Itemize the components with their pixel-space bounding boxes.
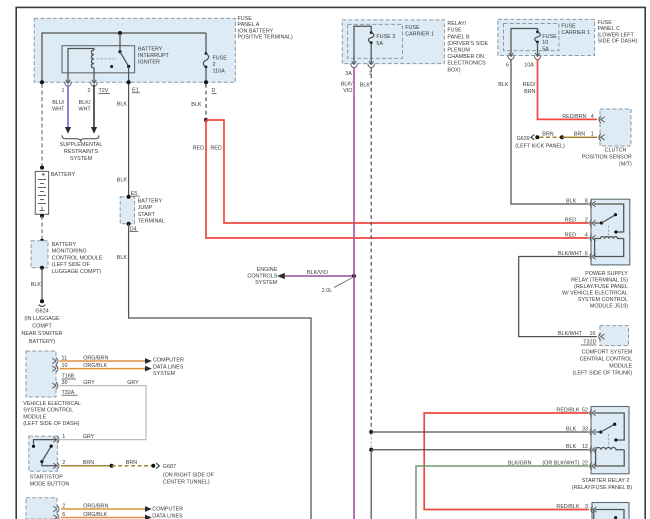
node: bus junction dot above igniter switch: [118, 31, 122, 35]
svg-text:BRN: BRN: [574, 132, 585, 138]
wire BLU/WHT to SRS: [67, 85, 69, 128]
svg-text:FUSE: FUSE: [542, 34, 557, 40]
svg-text:(LEFT SIDE OF DASH): (LEFT SIDE OF DASH): [23, 421, 79, 427]
wire ORG/BLK lower: [61, 517, 147, 519]
battery symbol: [35, 171, 48, 214]
svg-text:G687: G687: [163, 464, 176, 470]
svg-text:G639: G639: [517, 136, 530, 142]
svg-text:BLK/VIO: BLK/VIO: [307, 270, 328, 276]
wire: igniter pin 1 lead to coil: [68, 49, 94, 83]
svg-text:COMFORT SYSTEM: COMFORT SYSTEM: [582, 350, 633, 356]
svg-text:COMPUTER: COMPUTER: [153, 358, 184, 364]
wire BLK to starter relay pin 33: [371, 431, 589, 433]
svg-text:BLK: BLK: [566, 426, 577, 432]
svg-text:3A: 3A: [345, 71, 352, 77]
svg-text:1: 1: [591, 132, 594, 138]
svg-text:(OR BLK/WHT): (OR BLK/WHT): [542, 460, 579, 466]
fuse panel A box: [34, 18, 235, 82]
svg-text:RED/BLK: RED/BLK: [556, 407, 579, 413]
svg-text:(IN LUGGAGE: (IN LUGGAGE: [24, 316, 60, 322]
svg-text:BLK/: BLK/: [341, 82, 353, 88]
svg-text:16: 16: [590, 331, 596, 337]
svg-text:SIDE OF DASH): SIDE OF DASH): [598, 39, 638, 45]
svg-text:SYSTEM CONTROL: SYSTEM CONTROL: [23, 408, 73, 414]
svg-text:CONTROLS: CONTROLS: [247, 274, 277, 280]
svg-text:GRY: GRY: [127, 380, 139, 386]
relay/fuse panel B box: [342, 20, 444, 64]
svg-text:START/STOP: START/STOP: [30, 475, 64, 481]
svg-text:ELECTRONICS: ELECTRONICS: [447, 61, 486, 67]
svg-text:BLU/: BLU/: [52, 100, 64, 106]
wire dashed battery to monitoring module: [41, 216, 43, 240]
wire RED/BRN from pin 10A to clutch position sensor pin 4: [538, 60, 598, 120]
svg-text:110A: 110A: [213, 68, 226, 74]
svg-text:1: 1: [62, 88, 65, 94]
svg-text:CONTROL MODULE: CONTROL MODULE: [52, 255, 103, 261]
lower module box (cut off): [26, 498, 57, 519]
svg-text:BLK: BLK: [117, 177, 128, 183]
relay internal: coil between pin 4 and pin 6: [594, 237, 624, 239]
start/stop mode button box: [29, 436, 58, 471]
svg-text:GRY: GRY: [83, 380, 95, 386]
fuse F2 110A: [205, 33, 207, 53]
connector pin 2: [53, 462, 59, 469]
svg-text:FUSE: FUSE: [238, 16, 253, 22]
svg-text:BLK: BLK: [117, 101, 128, 107]
connector pin 11: [52, 357, 58, 364]
connector pin 10: [52, 365, 58, 372]
node junction dot red wires: [204, 118, 208, 122]
svg-text:BLK/GRN: BLK/GRN: [508, 460, 532, 466]
svg-text:SYSTEM: SYSTEM: [70, 156, 93, 162]
node dot BLK to starter relay pin 33: [369, 430, 373, 434]
fuse carrier 1 box (panel C): [504, 24, 559, 51]
svg-text:BATTERY): BATTERY): [29, 339, 55, 345]
svg-text:STARTER RELAY 2: STARTER RELAY 2: [582, 478, 630, 484]
relay internal: pin 8 to fixed contact: [594, 204, 624, 232]
svg-text:ENGINE: ENGINE: [257, 267, 278, 273]
svg-text:BLK: BLK: [191, 102, 202, 108]
svg-text:BLK: BLK: [566, 198, 577, 204]
svg-text:(LEFT SIDE OF TRUNK): (LEFT SIDE OF TRUNK): [573, 370, 633, 376]
svg-text:CARRIER 1: CARRIER 1: [561, 30, 590, 36]
svg-text:PLENUM: PLENUM: [447, 48, 470, 54]
mechanical link (dashed) coil to switch: [97, 58, 118, 60]
node: bus junction dot at left bottom edge of panel A: [40, 80, 44, 84]
svg-text:BATTERY: BATTERY: [138, 198, 163, 204]
node dot at module bottom: [40, 266, 44, 270]
wire BLK from E1 down to jump start terminal: [128, 84, 130, 197]
svg-text:ORG/BRN: ORG/BRN: [83, 355, 108, 361]
svg-text:POSITION SENSOR: POSITION SENSOR: [582, 155, 632, 161]
svg-text:WHT: WHT: [78, 107, 91, 113]
connector pin 1: [53, 436, 59, 443]
svg-text:BLK/: BLK/: [79, 100, 91, 106]
connector pin 12: [590, 446, 596, 453]
svg-text:10A: 10A: [524, 62, 534, 68]
wire BLK to ground G624: [41, 268, 43, 300]
connector pin 3: [368, 61, 375, 68]
starter relay internal: pin 52 to fixed contact: [594, 413, 624, 440]
svg-text:SYSTEM CONTROL: SYSTEM CONTROL: [578, 297, 628, 303]
svg-text:MODULE J519): MODULE J519): [590, 303, 628, 309]
svg-text:PANEL C: PANEL C: [598, 26, 621, 32]
svg-text:ORG/BLK: ORG/BLK: [83, 512, 107, 518]
fuse F3 5A: [370, 31, 373, 34]
svg-text:CENTRAL CONTROL: CENTRAL CONTROL: [579, 357, 632, 363]
svg-text:INTERRUPT: INTERRUPT: [138, 53, 170, 59]
svg-text:2: 2: [88, 88, 91, 94]
svg-text:FUSE: FUSE: [405, 25, 420, 31]
svg-text:POWER SUPPLY: POWER SUPPLY: [585, 271, 628, 277]
wire ORG/BRN lower: [61, 508, 147, 510]
svg-text:COMPUTER: COMPUTER: [152, 507, 183, 513]
svg-text:FUSE: FUSE: [447, 28, 462, 34]
svg-text:2.0L: 2.0L: [322, 288, 333, 294]
node dot at module top: [40, 239, 44, 243]
starter relay internal: switch blade from pin 33: [594, 431, 600, 433]
svg-text:2: 2: [585, 217, 588, 223]
svg-text:LUGGAGE COMPT): LUGGAGE COMPT): [52, 269, 102, 275]
wire ORG/BRN to computer data lines: [60, 360, 148, 362]
connector pin 6: [590, 253, 596, 260]
svg-text:BLK: BLK: [566, 444, 577, 450]
svg-text:(ON BATTERY: (ON BATTERY: [238, 28, 274, 34]
starter relay internal: actuator dashed: [608, 434, 610, 449]
svg-text:(DRIVER'S SIDE: (DRIVER'S SIDE: [447, 41, 488, 47]
svg-text:JUMP: JUMP: [138, 205, 153, 211]
svg-text:12: 12: [582, 444, 588, 450]
svg-text:RED/BLK: RED/BLK: [556, 504, 579, 510]
svg-text:(ON RIGHT SIDE OF: (ON RIGHT SIDE OF: [163, 472, 215, 478]
svg-text:DATA LINES: DATA LINES: [153, 364, 184, 370]
wire RED to power supply relay pin 4: [206, 120, 589, 238]
svg-text:POSITIVE TERMINAL): POSITIVE TERMINAL): [238, 35, 294, 41]
svg-text:MODE BUTTON: MODE BUTTON: [30, 482, 70, 488]
svg-text:G624: G624: [35, 308, 48, 314]
wire BLK dashed vertical from pin 3: [370, 68, 372, 430]
battery interrupt igniter box: [62, 46, 135, 73]
svg-text:33: 33: [582, 426, 588, 432]
svg-text:VIO: VIO: [343, 88, 352, 94]
wire BLK/VIO to engine controls system: [285, 275, 354, 277]
comfort system central control module box: [600, 326, 629, 346]
wire BRN to clutch position sensor pin 1: [562, 136, 597, 138]
svg-text:MODULE: MODULE: [609, 364, 632, 370]
svg-text:DATA LINES: DATA LINES: [152, 513, 183, 519]
svg-text:BRN: BRN: [524, 89, 535, 95]
svg-text:4: 4: [591, 114, 594, 120]
wire RED/BLK from starter relay pin 52 down to relay below pin 3: [424, 413, 589, 510]
wire BLK from pin D (dashed): [205, 84, 207, 118]
ground G624: [40, 299, 44, 303]
svg-text:3: 3: [585, 504, 588, 510]
wire ORG/BLK to computer data lines: [60, 368, 148, 370]
battery monitoring control module box: [31, 241, 48, 268]
connector clutch pin 1: [599, 134, 605, 141]
svg-text:COMPT: COMPT: [32, 324, 52, 330]
svg-text:BRN: BRN: [83, 460, 94, 466]
connector pin 3A: [351, 61, 358, 68]
svg-text:22: 22: [582, 460, 588, 466]
button internal: switch blade from pin 2: [42, 462, 57, 466]
svg-text:SYSTEM: SYSTEM: [255, 280, 278, 286]
svg-text:IGNITER: IGNITER: [138, 60, 160, 66]
connector comfort pin 16: [599, 333, 605, 340]
svg-text:RED/BRN: RED/BRN: [562, 114, 586, 120]
svg-text:BLK: BLK: [117, 255, 128, 261]
wire BLK from jump start terminal down right and down: [129, 224, 311, 519]
connector pin 30: [52, 382, 58, 389]
connector pin 2: [53, 505, 59, 512]
coil of battery interrupt igniter: [91, 50, 94, 82]
svg-text:RELAY/: RELAY/: [447, 21, 466, 27]
wire dashed to battery: [41, 84, 43, 166]
svg-text:(LEFT SIDE OF: (LEFT SIDE OF: [52, 262, 91, 268]
relay internal: switch blade from pin 2: [594, 222, 601, 224]
connector clutch pin 4: [599, 116, 605, 123]
wire BLK/VIO main vertical: [353, 68, 355, 519]
node junction dot on BLK/VIO: [352, 274, 356, 278]
fuse carrier 1 box (panel B): [348, 24, 403, 58]
svg-text:PANEL B: PANEL B: [447, 34, 470, 40]
svg-text:MONITORING: MONITORING: [52, 249, 87, 255]
wire GRY loop pin 30 to start/stop button pin 1: [60, 386, 147, 440]
svg-text:WHT: WHT: [52, 107, 65, 113]
svg-text:ORG/BRN: ORG/BRN: [83, 503, 108, 509]
svg-text:BLK: BLK: [498, 82, 509, 88]
svg-text:(RELAY/FUSE PANEL: (RELAY/FUSE PANEL: [574, 284, 628, 290]
connector pin 6: [508, 53, 515, 60]
svg-text:RED: RED: [193, 145, 204, 151]
svg-text:5A: 5A: [542, 46, 549, 52]
battery jump start terminal box: [120, 197, 134, 224]
svg-text:NEAR STARTER: NEAR STARTER: [21, 331, 62, 337]
switch of battery interrupt igniter: [119, 33, 121, 52]
svg-text:4: 4: [585, 232, 588, 238]
svg-text:CLUTCH: CLUTCH: [605, 148, 627, 154]
relay internal: actuator dashed: [608, 226, 610, 238]
svg-text:MODULE: MODULE: [23, 414, 46, 420]
svg-text:BRN: BRN: [126, 460, 137, 466]
svg-text:1: 1: [62, 434, 65, 440]
wire inside carrier to fuse 10: [511, 29, 538, 56]
svg-text:FUSE 3: FUSE 3: [376, 34, 395, 40]
svg-text:BLK/WHT: BLK/WHT: [558, 331, 583, 337]
node: D dot on panel edge: [204, 80, 208, 84]
svg-text:TERMINAL: TERMINAL: [138, 219, 165, 225]
node dot below battery: [40, 214, 44, 218]
svg-text:BATTERY: BATTERY: [52, 242, 77, 248]
button internal: pin 1 lead to fixed contact: [34, 440, 57, 445]
svg-text:FUSE: FUSE: [598, 20, 613, 26]
wire BRN dashed from G639: [540, 136, 561, 138]
svg-text:52: 52: [582, 407, 588, 413]
connector pin 1: [65, 80, 72, 87]
svg-text:(LEFT KICK PANEL): (LEFT KICK PANEL): [515, 144, 565, 150]
wire RED to power supply relay pin 2: [206, 120, 589, 223]
node dot above battery: [40, 166, 44, 170]
node dot on BRN: [560, 135, 564, 139]
svg-text:5A: 5A: [376, 41, 383, 47]
wire BLK/GRN from starter relay pin 22: [416, 466, 589, 519]
wire BLK/WHT from pin 6 to comfort module pin 16: [519, 257, 597, 337]
wire: panel A bus from node at bottom edge up and across to fuse 2: [42, 33, 206, 82]
wire BLK from pin 6 to power supply relay pin 8: [511, 60, 589, 204]
connector pin 4: [590, 234, 596, 241]
svg-text:BLK: BLK: [31, 282, 42, 288]
svg-text:RED: RED: [565, 232, 576, 238]
starter relay 2 box: [591, 407, 629, 474]
svg-text:RESTRAINTS: RESTRAINTS: [64, 149, 99, 155]
svg-text:BOX): BOX): [447, 67, 460, 73]
connector pin 33: [590, 428, 596, 435]
svg-text:CARRIER 1: CARRIER 1: [405, 31, 434, 37]
connector pin 2: [590, 219, 596, 226]
wire BLK solid continues down: [370, 450, 372, 519]
svg-text:ORG/BLK: ORG/BLK: [83, 363, 107, 369]
connector pin 2: [91, 80, 98, 87]
svg-text:RED/: RED/: [523, 82, 536, 88]
svg-text:2: 2: [213, 62, 216, 68]
wire inside carrier to fuse 3: [354, 26, 371, 63]
svg-text:RELAY (TERMINAL 15): RELAY (TERMINAL 15): [571, 277, 628, 283]
fuse F10 5A: [536, 31, 539, 34]
svg-text:10: 10: [542, 40, 548, 46]
svg-text:BATTERY: BATTERY: [138, 47, 163, 53]
svg-text:FUSE: FUSE: [561, 23, 576, 29]
wire BLK/WHT to SRS: [93, 85, 95, 128]
contact dot inside igniter: [110, 65, 113, 68]
svg-text:BRN: BRN: [542, 132, 553, 138]
brace supplemental restraints: [62, 135, 99, 141]
starter relay internal: coil: [594, 447, 624, 449]
svg-text:FUSE: FUSE: [213, 55, 228, 61]
node: E1 dot on panel edge: [127, 80, 131, 84]
connector pin 8: [590, 200, 596, 207]
svg-text:6: 6: [506, 62, 509, 68]
svg-text:VEHICLE ELECTRICAL: VEHICLE ELECTRICAL: [23, 401, 81, 407]
svg-text:RED: RED: [565, 217, 576, 223]
svg-text:CENTER TUNNEL): CENTER TUNNEL): [163, 479, 210, 485]
svg-text:CHAMBER ON: CHAMBER ON: [447, 54, 484, 60]
svg-text:(M/T): (M/T): [619, 162, 632, 168]
svg-text:BATTERY: BATTERY: [51, 172, 76, 178]
svg-text:W/ VEHICLE ELECTRICAL: W/ VEHICLE ELECTRICAL: [562, 290, 628, 296]
connector pin 10A: [534, 53, 541, 60]
svg-text:SUPPLEMENTAL: SUPPLEMENTAL: [60, 142, 103, 148]
wire BRN from pin 2: [61, 465, 112, 467]
vehicle electrical system control module box: [26, 351, 56, 397]
connector pin 52: [590, 409, 596, 416]
svg-text:GRY: GRY: [83, 434, 95, 440]
power supply relay box: [591, 199, 630, 265]
clutch position sensor box: [600, 109, 631, 146]
svg-text:(RELAY/FUSE PANEL B): (RELAY/FUSE PANEL B): [572, 485, 633, 491]
wire BLK to starter relay pin 12: [371, 449, 589, 451]
connector pin 6: [53, 514, 59, 519]
svg-text:RED: RED: [210, 145, 221, 151]
svg-text:START: START: [138, 212, 156, 218]
svg-text:SYSTEM: SYSTEM: [153, 371, 176, 377]
svg-text:8: 8: [585, 198, 588, 204]
node dot BLK to starter relay pin 12: [369, 448, 373, 452]
svg-text:PANEL A: PANEL A: [238, 22, 260, 28]
wire faint link between junctions: [370, 434, 372, 449]
svg-text:BLK: BLK: [360, 83, 371, 89]
fuse panel C box: [498, 19, 595, 55]
svg-text:(LOWER LEFT: (LOWER LEFT: [598, 32, 635, 38]
connector pin 22: [590, 462, 596, 469]
